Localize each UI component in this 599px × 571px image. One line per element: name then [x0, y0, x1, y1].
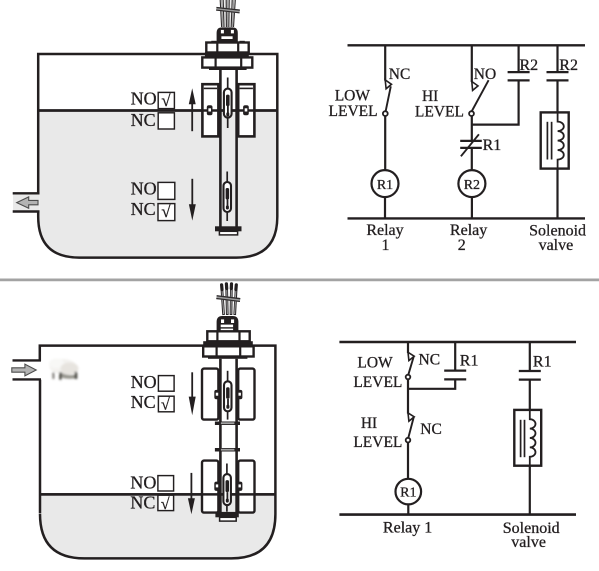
switch HI LEVEL lever	[472, 80, 489, 111]
cable tips	[222, 284, 237, 290]
cable clamp bar	[216, 295, 240, 302]
float magnet left	[207, 105, 213, 115]
svg-text:LEVEL: LEVEL	[353, 434, 402, 451]
wire branch 1 lower	[384, 116, 386, 170]
wire jumper to contact R1	[408, 379, 455, 388]
hex nut ears	[211, 41, 216, 44]
stem end cap	[215, 226, 242, 231]
flange bar	[209, 67, 247, 70]
outflow arrow	[17, 197, 38, 208]
cable gland cap	[217, 27, 238, 41]
solenoid core lines	[546, 122, 548, 160]
wire coil R1 to rail	[384, 197, 386, 218]
wire branch 2 upper	[471, 45, 473, 82]
cable gland cap	[217, 316, 239, 331]
solenoid valve box	[514, 410, 541, 466]
switch LOW LEVEL fixed contact	[385, 80, 391, 89]
switch HI LEVEL pivot	[469, 111, 474, 116]
wire contact R1 to coil R2	[471, 148, 473, 170]
wire solenoid branch upper	[529, 342, 531, 371]
svg-text:HI: HI	[361, 415, 377, 432]
liquid level line tank 2	[41, 493, 275, 496]
flange band	[203, 341, 253, 346]
down arrow lower	[190, 473, 192, 500]
top supply rail	[339, 341, 576, 344]
solenoid coil	[530, 410, 536, 466]
contact R1 solenoid branch	[519, 370, 541, 372]
down arrow	[191, 179, 193, 206]
top supply rail	[348, 44, 586, 46]
wire contact to solenoid	[556, 80, 558, 112]
hex flange lower	[203, 346, 253, 356]
reed switch lower	[226, 464, 228, 512]
svg-text:R1: R1	[377, 178, 393, 193]
annotations tank 1	[131, 88, 196, 221]
liquid line across floats	[39, 109, 276, 112]
switch HI LEVEL fixed contact	[472, 82, 478, 91]
switch LOW LEVEL fixed contact	[408, 352, 414, 360]
tank 2 outline	[40, 346, 276, 559]
wire main branch upper	[407, 342, 409, 353]
svg-text:NO: NO	[131, 372, 157, 392]
inlet pipe wall top	[13, 359, 42, 361]
hex nut upper	[207, 331, 249, 341]
smudge artifact	[49, 359, 79, 380]
liquid level line tank 1	[39, 109, 276, 112]
svg-text:NC: NC	[130, 492, 155, 512]
svg-text:√: √	[161, 202, 171, 221]
tank 1 outline	[38, 54, 277, 258]
switch LOW LEVEL pivot	[383, 111, 388, 116]
svg-text:Relay 1: Relay 1	[383, 520, 432, 537]
switch LOW LEVEL pivot	[406, 375, 411, 380]
svg-text:NC: NC	[131, 392, 156, 412]
annotations tank 2	[130, 372, 195, 514]
svg-text:√: √	[161, 397, 170, 414]
svg-text:valve: valve	[539, 237, 574, 254]
cable clamp bar	[216, 7, 240, 13]
svg-text:NO: NO	[131, 89, 157, 109]
liquid in outlet pipe	[13, 194, 39, 211]
svg-text:R2: R2	[520, 57, 539, 74]
switch HI LEVEL lever	[408, 417, 413, 438]
hex flange lower	[202, 57, 252, 67]
svg-text:NO: NO	[130, 472, 156, 492]
svg-text:LOW: LOW	[335, 88, 371, 105]
lower float right half	[238, 461, 254, 513]
switch LOW LEVEL lever	[408, 357, 413, 375]
flange band	[205, 52, 249, 57]
wire coil R2 to rail	[471, 197, 473, 218]
svg-text:NO: NO	[474, 66, 496, 83]
inlet pipe wall bottom	[13, 378, 42, 380]
floats tank 2	[41, 369, 275, 513]
hex nut upper	[206, 43, 248, 53]
svg-text:NC: NC	[131, 110, 156, 130]
wire solenoid to rail	[556, 169, 558, 219]
svg-text:√: √	[161, 496, 170, 513]
outlet pipe wall top	[13, 192, 40, 194]
reed switch upper	[227, 78, 229, 129]
wire coil to rail	[407, 504, 409, 514]
svg-text:R2: R2	[464, 178, 480, 193]
svg-text:LEVEL: LEVEL	[353, 374, 402, 391]
svg-text:R2: R2	[559, 57, 578, 74]
liquid line across lower floats	[41, 493, 275, 496]
wire pivot to coil	[407, 442, 409, 479]
liquid fill tank 2	[41, 495, 274, 558]
float right half	[238, 84, 254, 136]
svg-text:R1: R1	[400, 486, 416, 501]
wire jumper to contact R2	[472, 81, 519, 125]
flange bar	[208, 356, 247, 359]
switch HI LEVEL pivot	[406, 438, 411, 443]
svg-text:LOW: LOW	[357, 355, 393, 372]
svg-text:NO: NO	[131, 178, 157, 198]
stem collar lower	[215, 448, 240, 452]
relay coil R1	[372, 170, 399, 197]
upper float right half	[238, 369, 254, 420]
relay coil R1	[396, 479, 422, 505]
stem tube	[219, 70, 222, 227]
svg-text:R1: R1	[483, 137, 502, 154]
float switch assembly tank 2	[203, 284, 253, 521]
svg-text:2: 2	[458, 237, 466, 254]
cable bundle with connector tips	[222, 287, 236, 316]
svg-text:1: 1	[382, 237, 390, 254]
wire contact to solenoid	[529, 380, 531, 410]
svg-text:NC: NC	[131, 199, 156, 219]
float magnet right	[243, 105, 249, 115]
stem collar upper	[215, 422, 240, 426]
solenoid valve box	[541, 112, 569, 168]
svg-text:LEVEL: LEVEL	[415, 103, 464, 120]
svg-text:√: √	[161, 91, 171, 110]
inflow arrow	[12, 364, 36, 376]
wire solenoid to rail	[529, 466, 531, 515]
upper float left half	[202, 369, 218, 420]
contact R2 (branch 3)	[517, 45, 519, 72]
reed switch upper	[227, 371, 229, 420]
contact R2 solenoid branch	[547, 71, 569, 73]
solenoid coil	[558, 112, 564, 168]
liquid fill tank 1	[39, 111, 276, 257]
svg-text:NC: NC	[389, 66, 411, 83]
wire pivot to junction	[407, 379, 409, 413]
bottom supply rail	[339, 513, 576, 516]
contact R1 normally closed	[460, 140, 482, 142]
floats tank 1	[39, 78, 276, 222]
lower float magnets	[214, 482, 219, 491]
svg-text:LEVEL: LEVEL	[329, 103, 378, 120]
stem end cap	[215, 512, 238, 517]
svg-text:valve: valve	[511, 534, 546, 551]
wire solenoid branch upper	[556, 45, 558, 72]
solenoid core lines	[520, 420, 522, 457]
svg-text:R1: R1	[460, 353, 479, 370]
bottom supply rail	[348, 217, 586, 219]
svg-text:HI: HI	[422, 88, 438, 105]
switch HI LEVEL fixed contact	[408, 413, 414, 421]
contact R1 branch	[454, 342, 456, 371]
float left half	[202, 84, 218, 136]
float switch assembly tank 1	[202, 0, 252, 235]
outlet pipe wall bottom	[13, 210, 40, 212]
svg-text:R1: R1	[533, 354, 552, 371]
upper float magnets	[214, 390, 219, 399]
up arrow	[191, 101, 193, 131]
gray divider	[0, 279, 599, 282]
down arrow upper	[191, 372, 193, 398]
svg-text:Relay: Relay	[450, 222, 487, 239]
svg-text:NC: NC	[419, 351, 441, 368]
stem tube	[219, 359, 222, 513]
reed switch lower	[226, 172, 228, 222]
svg-text:NC: NC	[420, 421, 442, 438]
relay coil R2	[458, 170, 485, 197]
wire pivot to junction	[471, 116, 473, 141]
lower float left half	[202, 461, 218, 513]
cable bundle	[220, 0, 235, 27]
wire branch 1 upper	[384, 45, 386, 80]
switch LOW LEVEL lever	[386, 86, 391, 111]
